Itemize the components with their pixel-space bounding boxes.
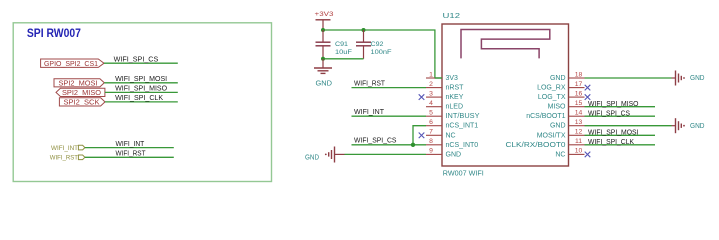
wire pin 9 to ground <box>345 153 427 155</box>
svg-text:11: 11 <box>575 138 582 145</box>
svg-text:WIFI_SPI_MISO: WIFI_SPI_MISO <box>115 85 168 92</box>
svg-text:SPI2_SCK: SPI2_SCK <box>64 100 100 107</box>
wire WIFI_SPI_CS <box>104 62 178 64</box>
hierarchical label GPIO_SPI2_CS1 <box>41 59 104 68</box>
wire WIFI_INT <box>85 147 174 149</box>
svg-text:nCS_INT1: nCS_INT1 <box>446 123 479 130</box>
wire WIFI_SPI_CS to pin 8 <box>352 144 427 146</box>
svg-text:GND: GND <box>690 73 705 82</box>
pin 15 MISO <box>548 100 585 111</box>
pin 3 nKEY <box>426 90 464 101</box>
pin 11 CLK/RX/BOOT0 <box>506 138 585 149</box>
wire +3V3 rail to pin 1 <box>323 30 442 78</box>
pin 7 NC <box>426 129 456 140</box>
svg-text:C91: C91 <box>335 41 348 48</box>
svg-text:nLED: nLED <box>446 104 464 111</box>
ground at pin 13 <box>672 118 706 133</box>
svg-text:NC: NC <box>446 132 456 139</box>
svg-text:nCS/BOOT1: nCS/BOOT1 <box>526 113 565 120</box>
svg-text:WIFI_INT: WIFI_INT <box>354 109 385 116</box>
wire WIFI_SPI_CLK right <box>585 144 656 146</box>
svg-text:100nF: 100nF <box>371 49 392 56</box>
svg-text:NC: NC <box>555 151 565 158</box>
svg-text:2: 2 <box>429 81 433 88</box>
ground below C91 <box>314 59 332 88</box>
wire WIFI_SPI_MOSI right <box>585 134 656 136</box>
no-connect pin 3 <box>419 94 425 100</box>
svg-text:CLK/RX/BOOT0: CLK/RX/BOOT0 <box>506 142 566 149</box>
pin 14 nCS/BOOT1 <box>526 110 584 121</box>
wire C91 bottom to C92 bottom <box>323 58 364 60</box>
pin 18 GND <box>550 71 585 82</box>
power +3V3 <box>315 11 334 30</box>
wire WIFI_RST to pin 2 <box>352 87 427 89</box>
svg-text:7: 7 <box>429 129 433 136</box>
pin 2 nRST <box>426 81 464 92</box>
svg-text:SPI RW007: SPI RW007 <box>27 28 81 40</box>
svg-text:WIFI_RST: WIFI_RST <box>50 155 78 162</box>
svg-text:LOG_TX: LOG_TX <box>538 94 566 101</box>
svg-text:16: 16 <box>575 90 583 97</box>
svg-text:GND: GND <box>446 151 462 158</box>
pin 1 3V3 <box>426 71 458 82</box>
svg-text:17: 17 <box>575 81 583 88</box>
svg-text:GND: GND <box>550 123 566 130</box>
svg-text:MISO: MISO <box>548 104 566 111</box>
no-connect pin 10 <box>585 152 591 158</box>
sheet pin WIFI_RST <box>50 155 85 162</box>
pin 10 NC <box>555 148 584 159</box>
svg-text:MOSI/TX: MOSI/TX <box>537 132 566 139</box>
pin 8 nCS_INT0 <box>426 138 478 149</box>
sheet SPI RW007 <box>13 23 271 182</box>
svg-text:WIFI_INT: WIFI_INT <box>51 145 78 152</box>
svg-text:INT/BUSY: INT/BUSY <box>446 113 480 120</box>
junction at +3V3/C91 <box>321 28 325 32</box>
wire WIFI_SPI_MISO <box>105 91 178 93</box>
pin 9 GND <box>426 148 461 159</box>
svg-text:5: 5 <box>429 110 433 117</box>
svg-text:WIFI_INT: WIFI_INT <box>116 141 145 148</box>
svg-text:GND: GND <box>690 121 705 130</box>
svg-text:6: 6 <box>429 119 433 126</box>
svg-text:U12: U12 <box>443 11 461 20</box>
svg-text:WIFI_RST: WIFI_RST <box>116 151 147 158</box>
component U12 RW007 <box>442 24 569 166</box>
svg-text:3: 3 <box>429 90 433 97</box>
svg-text:nCS_INT0: nCS_INT0 <box>446 142 479 149</box>
svg-text:RW007 WIFI: RW007 WIFI <box>443 171 484 178</box>
antenna graphic <box>461 30 550 59</box>
pin 16 LOG_TX <box>538 90 585 101</box>
wire pin 13 to ground <box>585 125 672 127</box>
svg-text:WIFI_SPI_CS: WIFI_SPI_CS <box>114 56 159 63</box>
pin 12 MOSI/TX <box>537 129 585 140</box>
wire branch pin 8 to pin 6 <box>413 126 426 145</box>
svg-text:WIFI_RST: WIFI_RST <box>354 80 386 87</box>
svg-text:WIFI_SPI_CLK: WIFI_SPI_CLK <box>588 139 634 146</box>
capacitor C91 <box>316 30 331 59</box>
svg-text:4: 4 <box>429 100 433 107</box>
svg-text:WIFI_SPI_MOSI: WIFI_SPI_MOSI <box>588 130 639 137</box>
svg-text:+3V3: +3V3 <box>315 11 334 18</box>
svg-text:nRST: nRST <box>446 85 465 92</box>
no-connect pin 17 <box>585 85 591 91</box>
svg-text:LOG_RX: LOG_RX <box>537 85 566 92</box>
svg-text:WIFI_SPI_CS: WIFI_SPI_CS <box>588 110 630 117</box>
wire WIFI_SPI_CLK <box>105 101 178 103</box>
pin 17 LOG_RX <box>537 81 584 92</box>
junction at C91 bottom <box>321 57 325 61</box>
wire WIFI_RST <box>85 156 174 158</box>
no-connect pin 7 <box>419 133 425 139</box>
svg-text:10: 10 <box>575 148 583 155</box>
svg-text:GND: GND <box>305 152 319 161</box>
svg-text:14: 14 <box>575 110 583 117</box>
svg-text:WIFI_SPI_CLK: WIFI_SPI_CLK <box>115 95 163 102</box>
capacitor C92 <box>356 30 371 59</box>
svg-text:C92: C92 <box>371 41 384 48</box>
ground at pin 9 <box>305 147 345 163</box>
wire WIFI_SPI_MISO right <box>585 106 656 108</box>
svg-text:GPIO_SPI2_CS1: GPIO_SPI2_CS1 <box>44 61 98 68</box>
svg-text:10uF: 10uF <box>335 49 352 56</box>
pin 6 nCS_INT1 <box>426 119 478 130</box>
svg-text:1: 1 <box>429 71 433 78</box>
ground at pin 18 <box>672 71 706 86</box>
svg-text:13: 13 <box>575 119 583 126</box>
svg-text:WIFI_SPI_MOSI: WIFI_SPI_MOSI <box>115 76 167 83</box>
pin 13 GND <box>550 119 585 130</box>
hierarchical label SPI2_MOSI <box>54 79 104 88</box>
svg-text:GND: GND <box>550 75 566 82</box>
junction at pin 8 wire <box>411 143 415 147</box>
svg-text:SPI2_MISO: SPI2_MISO <box>62 90 102 97</box>
pin 5 INT/BUSY <box>426 110 480 121</box>
svg-text:12: 12 <box>575 129 583 136</box>
svg-text:3V3: 3V3 <box>446 75 459 82</box>
wire pin 18 to ground <box>585 77 672 79</box>
no-connect pin 16 <box>585 94 591 100</box>
wire WIFI_SPI_CS right <box>585 115 656 117</box>
svg-text:8: 8 <box>429 138 433 145</box>
svg-text:WIFI_SPI_CS: WIFI_SPI_CS <box>354 138 397 145</box>
svg-text:GND: GND <box>316 81 333 88</box>
pin 4 nLED <box>426 100 463 111</box>
wire overlay into pin 1 <box>435 77 442 79</box>
svg-text:WIFI_SPI_MISO: WIFI_SPI_MISO <box>588 101 639 108</box>
sheet pin WIFI_INT <box>51 145 85 152</box>
wire WIFI_SPI_MOSI <box>104 82 178 84</box>
svg-text:18: 18 <box>575 71 583 78</box>
svg-text:SPI2_MOSI: SPI2_MOSI <box>59 81 98 88</box>
junction at C92 top <box>362 28 366 32</box>
hierarchical label SPI2_MISO <box>56 88 105 97</box>
hierarchical label SPI2_SCK <box>59 98 105 107</box>
svg-text:15: 15 <box>575 100 583 107</box>
svg-text:nKEY: nKEY <box>446 94 464 101</box>
wire WIFI_INT to pin 5 <box>352 115 427 117</box>
svg-text:9: 9 <box>429 148 433 155</box>
